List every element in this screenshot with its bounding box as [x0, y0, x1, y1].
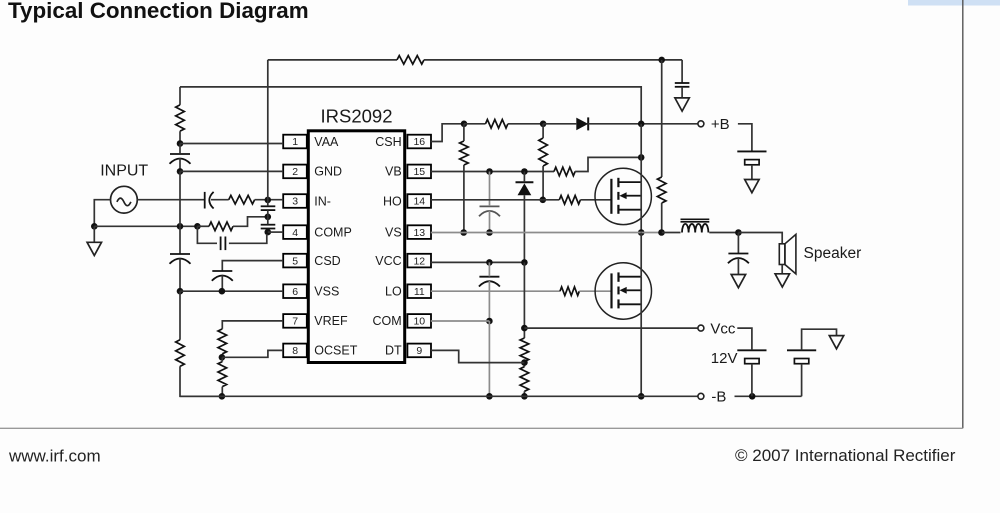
diode D1: [576, 118, 588, 131]
wire x180 to C7: [179, 226, 181, 253]
ground speaker: [775, 274, 789, 287]
pin 10 box: [407, 314, 431, 328]
node x180 lower: [177, 223, 184, 230]
ground output cap: [731, 275, 745, 288]
resistor R6 lower left: [176, 340, 185, 367]
wire R14 to gate: [579, 290, 611, 292]
wire C2 branch: [197, 226, 217, 243]
resistor R16 DT lower: [520, 367, 529, 392]
wire y87 horizontal: [180, 87, 641, 124]
wire C11 to ground: [737, 258, 739, 275]
node VSS180: [177, 288, 184, 295]
node VB diode: [521, 168, 528, 175]
transistor Q1 high side: [595, 168, 651, 224]
wire Q2 source: [640, 277, 642, 397]
svg-text:1: 1: [292, 136, 298, 148]
node -B battery: [749, 393, 756, 400]
node VS cap: [486, 229, 493, 236]
pin 8 box: [283, 344, 307, 358]
wire B2 to -B rail: [751, 364, 753, 397]
wire y87 down to R5: [179, 87, 181, 105]
resistor R14 LO gate: [560, 287, 579, 296]
wire C6 gaps: [179, 144, 181, 154]
wire C10 stubs: [488, 262, 490, 276]
svg-text:VCC: VCC: [375, 254, 401, 268]
ground input: [87, 242, 101, 255]
page right border: [962, 0, 964, 428]
capacitor C6 VAA-GND: [170, 153, 190, 155]
wire OCSET from pin8: [222, 350, 283, 357]
svg-text:© 2007 International Rectifier: © 2007 International Rectifier: [735, 446, 956, 465]
capacitor C7 lower: [170, 253, 190, 255]
wire top feedback left: [267, 60, 269, 200]
wire bottom rail: [180, 395, 698, 397]
wire B1 to ground: [751, 165, 753, 180]
node DT: [521, 359, 528, 366]
svg-text:12: 12: [413, 255, 425, 267]
svg-text:CSH: CSH: [375, 135, 401, 149]
wire Q2 drain: [640, 233, 642, 277]
svg-text:GND: GND: [314, 165, 342, 179]
pin 5 box: [283, 254, 307, 268]
node input ground junction: [91, 223, 98, 230]
pin 2 box: [283, 165, 307, 179]
resistor R7 VREF divider: [218, 329, 227, 354]
ground top right: [675, 98, 689, 111]
footer rule: [0, 427, 963, 429]
svg-text:COM: COM: [373, 314, 402, 328]
wire Vcc terminal run: [524, 327, 698, 329]
wire D2 stubs: [523, 172, 525, 183]
resistor R11 CSH-HO: [539, 138, 548, 166]
pin 15 box: [407, 165, 431, 179]
scrollbar strip top right: [908, 0, 1000, 6]
wire speaker ground stub: [781, 265, 783, 274]
op-amp U1 IRS2092 body: [308, 131, 404, 363]
wire C5 to ground: [681, 87, 683, 98]
wire output to speaker: [738, 233, 782, 244]
svg-text:5: 5: [292, 255, 298, 267]
wire DT from pin9: [431, 350, 525, 362]
wire C1 to R1: [211, 199, 229, 201]
node R10 VS: [460, 229, 467, 236]
wire feedback vertical: [661, 60, 663, 177]
pin 4 box: [283, 225, 307, 239]
node VCC diode line: [521, 259, 528, 266]
pin 13 box: [407, 225, 431, 239]
resistor R2 comp branch: [209, 222, 233, 231]
wire B3 top jog: [802, 329, 837, 350]
resistor R5 VAA supply: [176, 105, 185, 131]
svg-text:2: 2: [292, 166, 298, 178]
wire lower input run: [94, 225, 197, 227]
svg-text:OCSET: OCSET: [314, 344, 357, 358]
wire branch to R2: [197, 225, 209, 227]
pin 14 box: [407, 194, 431, 208]
svg-text:INPUT: INPUT: [100, 162, 148, 179]
node mid caps: [265, 214, 272, 221]
pin 12 box: [407, 254, 431, 268]
svg-text:Speaker: Speaker: [804, 245, 862, 262]
resistor R10 CSH-VS: [460, 141, 469, 165]
capacitor C2 series comp: [220, 237, 222, 251]
wire input ground stub: [93, 226, 95, 242]
svg-text:15: 15: [413, 166, 425, 178]
wire R5 to VAA node: [179, 131, 181, 143]
wire R10 stubs: [463, 124, 465, 141]
node VCC cap: [486, 259, 493, 266]
wire C9 stubs: [489, 172, 491, 207]
node bottom q2: [638, 393, 645, 400]
wire L1 to output node: [709, 232, 738, 234]
pin 6 box: [283, 284, 307, 298]
node +B drain: [638, 121, 645, 128]
node VB aux drain: [638, 154, 645, 161]
resistor R8 OCSET lower: [218, 362, 227, 387]
svg-text:-B: -B: [711, 389, 726, 406]
wire top rail left: [268, 59, 397, 61]
wire to D1: [543, 123, 576, 125]
node Vcc junction: [521, 325, 528, 332]
terminal Vcc: [698, 325, 704, 331]
pin 16 box: [407, 135, 431, 149]
wire output cap drop: [737, 233, 739, 254]
pin 11 box: [407, 284, 431, 298]
speaker SP1: [779, 244, 785, 265]
svg-text:10: 10: [413, 316, 425, 328]
AC source V1 INPUT: [111, 186, 138, 213]
pin 7 box: [283, 314, 307, 328]
battery B3 right: [787, 349, 816, 351]
wire R12 jog: [575, 157, 641, 171]
capacitor C3 IN- to mid: [261, 205, 276, 207]
wire Vcc line vertical: [523, 262, 525, 338]
node VS feedback: [658, 229, 665, 236]
svg-text:6: 6: [292, 286, 298, 298]
resistor R9 CSH: [486, 120, 508, 129]
svg-text:DT: DT: [385, 344, 402, 358]
svg-text:9: 9: [416, 345, 422, 357]
svg-text:14: 14: [413, 196, 425, 208]
resistor R13 HO gate: [559, 196, 580, 205]
ground B1: [745, 180, 759, 193]
svg-text:8: 8: [292, 345, 298, 357]
wire CSD from pin5: [222, 261, 283, 271]
node VSS222: [219, 288, 226, 295]
svg-text:www.irf.com: www.irf.com: [8, 447, 101, 466]
wire input left: [94, 200, 110, 227]
wire R16 to bottom: [523, 391, 525, 396]
wire input to C1: [137, 199, 204, 201]
transistor Q2 low side: [595, 263, 651, 319]
wire Vcc to B2: [737, 328, 752, 350]
svg-text:HO: HO: [383, 194, 402, 208]
wire R15 to DT node: [523, 362, 525, 367]
wire VAA to pin1: [180, 143, 283, 145]
node output cap: [735, 229, 742, 236]
wire Q1 drain: [640, 124, 642, 182]
pin 9 box: [407, 344, 431, 358]
wire COMP to pin4: [268, 231, 283, 233]
wire R8 stubs: [221, 357, 223, 361]
svg-text:VREF: VREF: [314, 314, 348, 328]
wire R2 to mid node: [233, 217, 268, 227]
capacitor C1 input coupling: [204, 192, 206, 209]
resistor R15 DT upper: [520, 338, 529, 362]
node COMP: [265, 229, 272, 236]
wire VSS down to R6: [179, 291, 181, 340]
wire caps vertical: [267, 200, 269, 206]
node COM cap: [486, 318, 493, 325]
resistor R3 feedback: [397, 56, 424, 65]
svg-text:IN-: IN-: [314, 194, 331, 208]
capacitor C4 mid to COMP: [261, 224, 276, 226]
wire top cap drop: [681, 60, 683, 83]
wire R7 to OCSET node: [221, 354, 223, 358]
wire HO from pin14: [431, 199, 543, 201]
wire VS from pin13: [431, 232, 662, 234]
wire CSH jog: [431, 124, 464, 142]
battery B1 +B supply: [737, 150, 766, 152]
terminal -B: [698, 393, 704, 399]
resistor R12 VB aux: [554, 167, 575, 176]
battery B2 12V: [737, 349, 766, 351]
inductor L1: [681, 218, 710, 220]
node VB cap: [486, 168, 493, 175]
svg-text:IRS2092: IRS2092: [321, 106, 393, 127]
wire R4 to VS: [661, 203, 663, 233]
wire D1 to +B: [588, 123, 698, 125]
diode D2 bootstrap: [516, 181, 534, 183]
resistor R4 feedback lower: [657, 177, 666, 203]
svg-text:3: 3: [292, 196, 298, 208]
wire GND down: [179, 171, 181, 226]
wire B3 bottom: [801, 364, 803, 397]
node R11 top: [540, 121, 547, 128]
wire R6 to bottom rail: [180, 366, 222, 396]
pin 1 box: [283, 135, 307, 149]
node HO junction: [540, 197, 547, 204]
wire R11 stubs: [542, 124, 544, 138]
wire GND to pin2: [180, 170, 283, 172]
node bottom dt: [521, 393, 528, 400]
wire VCC from pin12: [431, 261, 525, 263]
svg-text:CSD: CSD: [314, 254, 340, 268]
ground B3: [829, 336, 843, 349]
pin 3 box: [283, 194, 307, 208]
wire top rail right: [424, 59, 682, 61]
svg-text:16: 16: [413, 136, 425, 148]
wire +B to battery: [738, 124, 752, 151]
svg-text:7: 7: [292, 316, 298, 328]
node top right: [658, 57, 665, 64]
svg-text:VSS: VSS: [314, 285, 339, 299]
wire C7 to VSS node: [179, 258, 181, 291]
node bottom com: [486, 393, 493, 400]
node GND180: [177, 168, 184, 175]
svg-text:VS: VS: [385, 225, 402, 239]
wire R1 to IN- node: [255, 199, 284, 201]
svg-text:4: 4: [292, 227, 298, 239]
wire VB from pin15: [431, 171, 554, 173]
node branch split: [194, 223, 201, 230]
svg-text:Typical Connection Diagram: Typical Connection Diagram: [8, 0, 309, 23]
wire VSS to pin6: [180, 290, 283, 292]
capacitor C9 bootstrap: [480, 205, 500, 207]
wire C8 to VSS wire: [221, 275, 223, 291]
wire R9 to node: [508, 123, 543, 125]
svg-text:+B: +B: [711, 116, 730, 133]
capacitor C8 CSD: [212, 270, 232, 272]
svg-text:13: 13: [413, 227, 425, 239]
wire Q1 source: [640, 182, 642, 232]
node CSH R10 top: [461, 121, 468, 128]
node IN-: [265, 197, 272, 204]
svg-text:VB: VB: [385, 165, 402, 179]
wire HO to R13: [543, 199, 560, 201]
svg-text:11: 11: [414, 286, 425, 298]
wire COM line down: [488, 321, 490, 396]
wire VREF from pin7: [222, 321, 283, 329]
resistor R1 input series: [229, 195, 255, 204]
node bottom222: [219, 393, 226, 400]
svg-text:Vcc: Vcc: [710, 320, 736, 337]
svg-text:VAA: VAA: [314, 135, 339, 149]
capacitor C5 top right: [675, 82, 690, 84]
node OCSET: [219, 354, 226, 361]
wire LO from pin11: [431, 290, 560, 292]
svg-text:LO: LO: [385, 285, 402, 299]
capacitor C10 VCC decouple: [479, 276, 499, 278]
capacitor C11 output: [728, 253, 748, 255]
wire VS to L1: [662, 232, 681, 234]
node VAA: [177, 140, 184, 147]
wire COM from pin10: [431, 320, 490, 322]
node VS bridge: [638, 229, 645, 236]
wire -B resume: [735, 395, 802, 397]
terminal +B: [698, 121, 704, 127]
svg-text:COMP: COMP: [314, 225, 352, 239]
wire R13 to gate: [580, 199, 611, 201]
svg-text:12V: 12V: [711, 350, 738, 367]
wire CSH to R9: [464, 123, 486, 125]
